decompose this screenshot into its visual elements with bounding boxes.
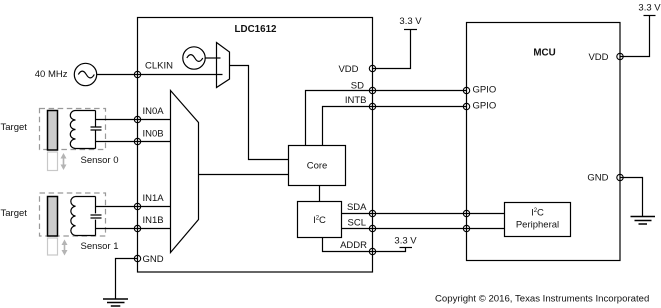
pin GND (MCU) (587, 173, 623, 184)
pin IN0A (134, 106, 164, 123)
wire SCL (342, 228, 505, 230)
input mux (171, 91, 199, 253)
ground symbol (MCU) (631, 217, 656, 225)
svg-text:CLKIN: CLKIN (145, 61, 173, 72)
supply 3.3V (MCU VDD) (638, 3, 661, 16)
svg-text:Target: Target (1, 208, 28, 219)
svg-text:3.3 V: 3.3 V (638, 3, 661, 14)
inductor L0 coil (70, 111, 95, 149)
pin INTB (345, 95, 376, 110)
svg-text:GPIO: GPIO (473, 85, 497, 96)
wire GND to ground (116, 259, 138, 300)
sensor 0 target plate (48, 111, 58, 151)
wire INTB to GPIO (323, 107, 467, 146)
supply 3.3V (LDC VDD) (399, 16, 422, 30)
pin GPIO 2 (463, 101, 496, 112)
wire MCU GND to ground (620, 178, 643, 217)
wire SDA (342, 213, 505, 215)
inductor L1 coil (71, 197, 96, 236)
svg-text:Target: Target (1, 122, 28, 133)
sensor 0 dashed boundary (40, 109, 106, 150)
wire clock mux to Core (230, 66, 289, 160)
pin SCL feedthrough (MCU) (463, 225, 469, 231)
wire sensor0 to IN0B (96, 141, 171, 143)
wire 40MHz to CLKIN (97, 74, 138, 76)
pin SCL (348, 218, 376, 232)
pin SD (351, 81, 376, 94)
sensor 1 target plate (48, 197, 58, 237)
svg-text:3.3 V: 3.3 V (399, 16, 422, 27)
sensor 0 target ghost plate (48, 152, 58, 171)
sensor 0 motion arrow (61, 153, 67, 170)
block Core (289, 146, 346, 186)
svg-text:40 MHz: 40 MHz (35, 69, 68, 80)
svg-text:IN1B: IN1B (143, 215, 164, 226)
pin IN0B (134, 129, 163, 145)
block I2C Peripheral (505, 203, 571, 237)
pin VDD (MCU) (588, 52, 623, 63)
wire sensor1 to IN1A (96, 206, 171, 208)
clock mux (217, 43, 230, 88)
pin SDA feedthrough (MCU) (463, 210, 469, 216)
wire sensor1 to IN1B (96, 228, 171, 230)
sensor 1 dashed boundary (40, 193, 106, 236)
wire internal osc to clock mux (205, 57, 220, 59)
ground symbol (LDC1612) (103, 299, 128, 306)
sensor 1 motion arrow (62, 240, 68, 256)
wire MCU VDD to 3.3V (620, 16, 650, 57)
svg-text:SDA: SDA (347, 202, 367, 213)
capacitor C1 (91, 215, 102, 218)
supply 3.3V (ADDR) (394, 236, 417, 248)
svg-text:3.3 V: 3.3 V (394, 236, 417, 247)
svg-text:MCU: MCU (533, 48, 555, 59)
internal oscillator (183, 47, 205, 69)
svg-text:INTB: INTB (345, 95, 367, 106)
svg-text:IN1A: IN1A (143, 193, 165, 204)
svg-text:GPIO: GPIO (473, 101, 497, 112)
svg-text:IN0B: IN0B (143, 129, 164, 140)
pin GPIO 1 (463, 85, 496, 96)
pin CLKIN (134, 61, 173, 78)
svg-text:GND: GND (587, 173, 608, 184)
pin IN1B (134, 215, 163, 232)
svg-text:Copyright © 2016, Texas Instru: Copyright © 2016, Texas Instruments Inco… (435, 294, 649, 305)
wire SD to GPIO (306, 91, 467, 146)
svg-text:Sensor 1: Sensor 1 (80, 241, 118, 252)
capacitor C0 (91, 127, 102, 130)
pin ADDR (340, 240, 376, 255)
pin IN1A (134, 193, 164, 210)
pin SDA (347, 202, 376, 217)
svg-text:GND: GND (143, 254, 164, 265)
wire ADDR to 3.3V (323, 238, 406, 252)
sensor 1 target ghost plate (48, 238, 58, 255)
wire VDD to 3.3V (373, 30, 411, 69)
IC block U2 MCU (467, 23, 621, 261)
wire CLKIN to clock mux (138, 74, 223, 76)
svg-text:SCL: SCL (348, 218, 366, 229)
svg-text:Core: Core (307, 161, 328, 172)
oscillator 40 MHz (74, 63, 96, 85)
wire sensor0 to IN0A (96, 119, 171, 121)
pin VDD (LDC1612) (338, 64, 375, 75)
svg-text:I2C: I2C (531, 208, 544, 219)
wire Core to I2C (319, 186, 321, 202)
IC block U1 LDC1612 (138, 18, 373, 273)
svg-text:VDD: VDD (588, 52, 608, 63)
svg-text:SD: SD (351, 81, 364, 92)
svg-text:LDC1612: LDC1612 (235, 24, 277, 35)
svg-text:VDD: VDD (338, 64, 358, 75)
svg-text:I2C: I2C (313, 215, 326, 226)
svg-text:ADDR: ADDR (340, 240, 367, 251)
svg-text:Peripheral: Peripheral (516, 220, 559, 231)
wire input mux to Core (199, 174, 289, 176)
svg-text:IN0A: IN0A (143, 106, 165, 117)
svg-text:Sensor 0: Sensor 0 (80, 155, 118, 166)
block I2C (298, 202, 342, 238)
pin GND (LDC1612) (134, 254, 163, 265)
